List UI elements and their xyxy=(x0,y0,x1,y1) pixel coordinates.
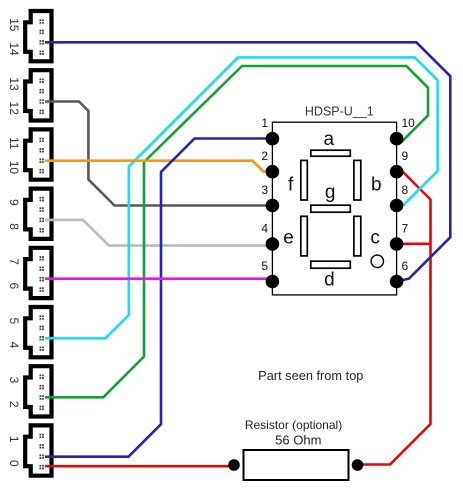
svg-text:3: 3 xyxy=(7,377,21,384)
resistor R1 xyxy=(228,418,363,480)
pin 2 xyxy=(266,165,280,179)
resistor body xyxy=(244,450,349,480)
segment c xyxy=(354,216,361,256)
wire gray pin12 to pin3 xyxy=(45,102,272,206)
connector J6 pins 5/4 xyxy=(7,307,51,357)
svg-text:10: 10 xyxy=(7,161,21,175)
segment f xyxy=(301,160,308,200)
svg-text:d: d xyxy=(324,269,335,290)
svg-text:5: 5 xyxy=(261,259,268,273)
svg-text:6: 6 xyxy=(7,282,21,289)
svg-text:2: 2 xyxy=(7,401,21,408)
svg-text:Resistor (optional): Resistor (optional) xyxy=(245,418,342,432)
svg-text:9: 9 xyxy=(7,199,21,206)
segment a xyxy=(311,150,351,156)
resistor right terminal xyxy=(352,459,364,471)
svg-text:6: 6 xyxy=(402,259,409,273)
pin 4 xyxy=(266,237,280,251)
svg-text:4: 4 xyxy=(7,342,21,349)
svg-text:b: b xyxy=(371,175,382,196)
pin 10 xyxy=(390,132,404,146)
segment g xyxy=(311,205,351,212)
wire blue pin14 to pin6 xyxy=(45,42,450,281)
svg-text:f: f xyxy=(288,175,294,196)
svg-text:13: 13 xyxy=(7,77,21,91)
connector J3 pins 11/10 xyxy=(7,129,51,179)
pin 7 xyxy=(390,237,404,251)
svg-text:15: 15 xyxy=(7,18,21,32)
connector J5 pins 7/6 xyxy=(7,248,51,298)
svg-text:1: 1 xyxy=(261,116,268,130)
connector J7 pins 3/2 xyxy=(7,366,51,416)
wire red pin9 to resistor right xyxy=(362,172,431,465)
svg-text:7: 7 xyxy=(402,221,409,235)
svg-text:10: 10 xyxy=(402,116,416,130)
pin 1 xyxy=(266,132,280,146)
svg-text:12: 12 xyxy=(7,102,21,116)
wire magenta pin6 to pin5 xyxy=(45,277,272,280)
segment b xyxy=(354,160,361,200)
connector J8 pins 1/0 xyxy=(7,425,51,475)
wire cyan pin4 to pin8 xyxy=(45,57,438,338)
wire lightgray pin8 to pin4 xyxy=(45,220,272,246)
svg-text:5: 5 xyxy=(7,317,21,324)
svg-text:9: 9 xyxy=(402,149,409,163)
pin 5 xyxy=(266,275,280,289)
svg-text:a: a xyxy=(324,129,335,150)
connector J1 pins 15/14 xyxy=(7,11,51,61)
svg-text:56 Ohm: 56 Ohm xyxy=(275,432,321,447)
svg-text:g: g xyxy=(325,182,336,203)
display body xyxy=(272,122,396,295)
7-segment display U1 HDSP xyxy=(261,105,415,295)
pin 3 xyxy=(266,199,280,213)
pin 8 xyxy=(390,199,404,213)
svg-text:8: 8 xyxy=(402,183,409,197)
wire orange pin10 to pin2 xyxy=(45,161,272,172)
svg-text:e: e xyxy=(283,228,294,249)
pin 9 xyxy=(390,165,404,179)
connector J2 pins 13/12 xyxy=(7,70,51,120)
svg-text:8: 8 xyxy=(7,223,21,230)
segment d xyxy=(311,261,351,268)
decimal point xyxy=(371,255,383,267)
wire red pin0 to resistor xyxy=(45,465,234,468)
svg-text:3: 3 xyxy=(261,183,268,197)
svg-text:c: c xyxy=(370,228,380,249)
svg-text:11: 11 xyxy=(7,137,21,150)
svg-text:1: 1 xyxy=(7,436,21,443)
pin 6 xyxy=(390,275,404,289)
connector J4 pins 9/8 xyxy=(7,189,51,239)
wire green pin2 to pin10 xyxy=(45,66,428,397)
svg-text:14: 14 xyxy=(7,42,21,56)
wire blue pin1 to pin1 xyxy=(45,139,272,457)
wire red pin7 branch xyxy=(397,243,431,246)
resistor left terminal xyxy=(228,459,240,471)
segment e xyxy=(301,216,308,256)
svg-text:Part seen from top: Part seen from top xyxy=(258,368,363,383)
svg-text:4: 4 xyxy=(261,221,268,235)
svg-text:2: 2 xyxy=(261,149,268,163)
svg-text:7: 7 xyxy=(7,258,21,265)
svg-text:0: 0 xyxy=(7,460,21,467)
svg-text:HDSP-U__1: HDSP-U__1 xyxy=(305,105,374,119)
